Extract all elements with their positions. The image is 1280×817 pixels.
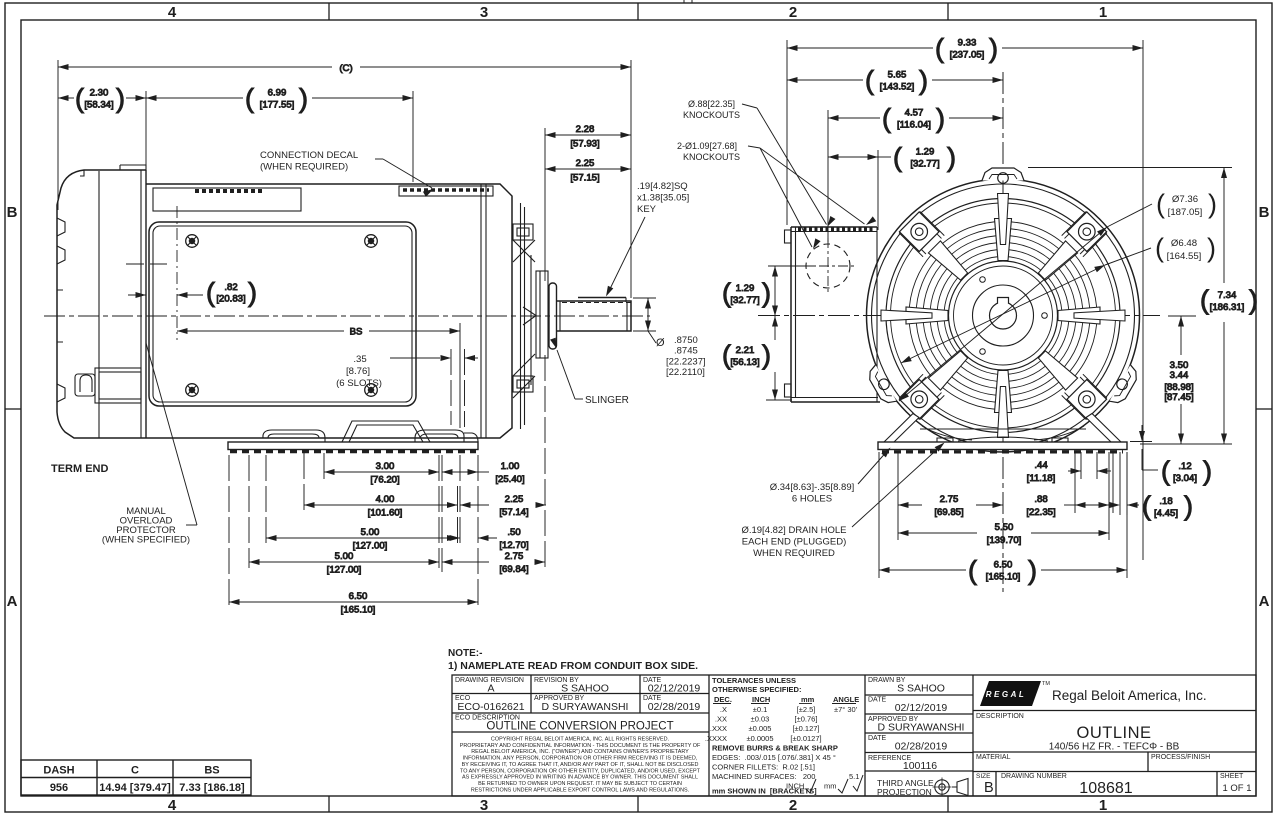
svg-text:Regal Beloit America, Inc.: Regal Beloit America, Inc. bbox=[1052, 688, 1207, 703]
svg-text:TM: TM bbox=[1042, 681, 1050, 687]
dim 5.00 [127.00] bbox=[249, 551, 439, 576]
svg-text:4: 4 bbox=[168, 797, 177, 814]
svg-text:[56.13]: [56.13] bbox=[730, 357, 759, 368]
svg-text:2: 2 bbox=[789, 4, 797, 21]
svg-text:): ) bbox=[919, 66, 928, 96]
svg-text:REGAL BELOIT AMERICA, INC. ("O: REGAL BELOIT AMERICA, INC. ("OWNER") AND… bbox=[471, 749, 689, 755]
dim 3.00 [76.20] bbox=[324, 461, 439, 486]
svg-text:(: ( bbox=[968, 556, 977, 586]
svg-text:6.99: 6.99 bbox=[268, 88, 287, 99]
base plate bbox=[228, 442, 478, 452]
fan cover (term end) bbox=[57, 165, 146, 438]
radial wedge ribs bbox=[1058, 307, 1100, 324]
svg-text:REGAL: REGAL bbox=[986, 690, 1027, 699]
svg-text:6.50: 6.50 bbox=[994, 560, 1013, 571]
svg-text:.44: .44 bbox=[1034, 460, 1048, 471]
svg-text:[12.70]: [12.70] bbox=[499, 540, 528, 551]
svg-text:02/28/2019: 02/28/2019 bbox=[895, 741, 948, 753]
dim 1.00 [25.40] bbox=[442, 461, 525, 485]
dim 2.21 [56.13] left bbox=[722, 316, 792, 400]
svg-text:(: ( bbox=[882, 104, 891, 134]
svg-text:2.75: 2.75 bbox=[940, 494, 959, 505]
svg-text:(: ( bbox=[1200, 285, 1209, 315]
svg-text:): ) bbox=[116, 84, 125, 114]
svg-text:[87.45]: [87.45] bbox=[1164, 392, 1193, 403]
hub circle bbox=[973, 285, 1034, 346]
svg-text:140/56 HZ FR. - TEFCΦ - BB: 140/56 HZ FR. - TEFCΦ - BB bbox=[1049, 742, 1180, 753]
svg-text:ANGLE: ANGLE bbox=[833, 695, 859, 704]
svg-text:COPYRIGHT REGAL BELOIT AMERICA: COPYRIGHT REGAL BELOIT AMERICA, INC. ALL… bbox=[491, 737, 670, 743]
svg-text:TOLERANCES UNLESS: TOLERANCES UNLESS bbox=[712, 676, 796, 685]
svg-text:mm: mm bbox=[801, 695, 815, 704]
svg-text:): ) bbox=[762, 278, 771, 308]
svg-text:Ø7.36: Ø7.36 bbox=[1172, 194, 1198, 205]
svg-text:ECO-0162621: ECO-0162621 bbox=[457, 701, 524, 713]
svg-text:(: ( bbox=[1155, 233, 1164, 263]
surface finish check symbols bbox=[806, 775, 863, 793]
svg-text:): ) bbox=[1184, 491, 1193, 521]
frame clamp bolts bbox=[186, 235, 378, 397]
svg-text:.35: .35 bbox=[353, 354, 366, 365]
svg-text:[32.77]: [32.77] bbox=[730, 295, 759, 306]
svg-text:TERM END: TERM END bbox=[51, 463, 109, 475]
svg-text:): ) bbox=[1207, 233, 1216, 263]
louvre rings bbox=[909, 222, 1097, 410]
center pedestal bbox=[342, 421, 430, 442]
slinger bbox=[549, 283, 557, 349]
zone divider ticks bbox=[328, 3, 330, 20]
svg-text:[57.15]: [57.15] bbox=[570, 173, 599, 184]
svg-text:.XXXX: .XXXX bbox=[705, 734, 727, 743]
svg-text:Ø.34[8.63]-.35[8.89]: Ø.34[8.63]-.35[8.89] bbox=[770, 482, 855, 493]
svg-text:): ) bbox=[762, 340, 771, 370]
svg-text:RESTRICTIONS UNDER APPLICABLE: RESTRICTIONS UNDER APPLICABLE EXPORT CON… bbox=[471, 787, 690, 793]
svg-text:[±0.127]: [±0.127] bbox=[792, 724, 819, 733]
svg-text:A: A bbox=[7, 593, 18, 610]
rear foot bbox=[415, 430, 478, 442]
svg-text:108681: 108681 bbox=[1079, 780, 1132, 797]
dim .50 [12.70] bbox=[448, 527, 529, 551]
svg-text:OTHERWISE SPECIFIED:: OTHERWISE SPECIFIED: bbox=[712, 685, 801, 694]
svg-text:3: 3 bbox=[480, 797, 488, 814]
guard mounting lugs (45 deg) bbox=[1062, 374, 1108, 420]
svg-text:INCH: INCH bbox=[752, 695, 770, 704]
svg-text:A: A bbox=[1259, 593, 1270, 610]
bearing hub bbox=[536, 271, 548, 358]
dim .88 [22.35] bbox=[1026, 494, 1109, 518]
svg-text:Ø.19[4.82] DRAIN HOLE: Ø.19[4.82] DRAIN HOLE bbox=[741, 525, 846, 536]
small guard screw holes bbox=[980, 277, 1048, 355]
svg-text:): ) bbox=[248, 278, 257, 308]
svg-text:OUTLINE: OUTLINE bbox=[1076, 724, 1151, 742]
shaft key flat bbox=[578, 297, 626, 299]
svg-text:2.25: 2.25 bbox=[576, 158, 595, 169]
svg-text:MACHINED SURFACES: 200: MACHINED SURFACES: 200 bbox=[712, 772, 815, 781]
svg-text:Ø: Ø bbox=[656, 337, 665, 349]
svg-text:S SAHOO: S SAHOO bbox=[561, 683, 609, 695]
svg-text:DEC.: DEC. bbox=[714, 695, 732, 704]
svg-text:.82: .82 bbox=[224, 282, 237, 293]
dim .44 [11.18] bbox=[1027, 460, 1111, 484]
cardinal spoke ribs bbox=[1074, 310, 1125, 321]
svg-text:[187.05]: [187.05] bbox=[1168, 207, 1203, 218]
dim 2.25 [57.14] bbox=[460, 494, 546, 518]
svg-text:956: 956 bbox=[50, 782, 68, 794]
svg-text:SIZE: SIZE bbox=[976, 773, 991, 780]
svg-text:.8745: .8745 bbox=[674, 346, 698, 357]
svg-text:(6 SLOTS): (6 SLOTS) bbox=[336, 378, 382, 389]
dim 7.34 [186.31] bbox=[1028, 168, 1258, 445]
svg-text:1.29: 1.29 bbox=[736, 283, 755, 294]
extension lines top bbox=[787, 40, 1143, 560]
svg-text:2.28: 2.28 bbox=[576, 124, 595, 135]
svg-text:KNOCKOUTS: KNOCKOUTS bbox=[683, 110, 740, 120]
svg-text:): ) bbox=[1208, 189, 1217, 219]
svg-text:(: ( bbox=[1156, 189, 1165, 219]
svg-text:KEY: KEY bbox=[637, 204, 657, 215]
svg-text:): ) bbox=[947, 143, 956, 173]
svg-text:9.33: 9.33 bbox=[958, 38, 977, 49]
svg-text:): ) bbox=[989, 34, 998, 64]
svg-text:(WHEN REQUIRED): (WHEN REQUIRED) bbox=[260, 162, 348, 173]
svg-text:±0.1: ±0.1 bbox=[753, 705, 768, 714]
third angle projection symbol bbox=[933, 778, 969, 797]
svg-text:.XX: .XX bbox=[715, 715, 727, 724]
dim 2.28 [57.93] bbox=[545, 124, 631, 150]
svg-text:B: B bbox=[984, 780, 994, 796]
dim 5.00 [127.00] bbox=[266, 527, 458, 552]
svg-text:CORNER FILLETS: R.02 [.51]: CORNER FILLETS: R.02 [.51] bbox=[712, 763, 815, 772]
title block revision table text bbox=[455, 677, 700, 733]
svg-text:1.29: 1.29 bbox=[916, 147, 935, 158]
svg-text:C: C bbox=[131, 765, 139, 777]
svg-text:4.57: 4.57 bbox=[905, 108, 924, 119]
dim 5.50 [139.70] bbox=[898, 522, 1109, 546]
dim 3.50/3.44 shaft height bbox=[1164, 316, 1196, 444]
svg-text:6.50: 6.50 bbox=[349, 591, 368, 602]
svg-text:(: ( bbox=[206, 278, 215, 308]
svg-text:B: B bbox=[1259, 204, 1270, 221]
conduit box bbox=[785, 227, 881, 402]
svg-text:BS: BS bbox=[350, 327, 363, 338]
motor body outline bbox=[146, 184, 512, 438]
svg-text:B: B bbox=[7, 204, 18, 221]
svg-text:[57.93]: [57.93] bbox=[570, 139, 599, 150]
svg-text:EDGES: .003/.015 [.076/.381]: EDGES: .003/.015 [.076/.381] X 45 ° bbox=[712, 753, 836, 762]
svg-text:[69.84]: [69.84] bbox=[499, 564, 528, 575]
svg-text:INFORMATION. ANY PERSON, CORPO: INFORMATION. ANY PERSON, CORPORATION OR … bbox=[463, 756, 698, 762]
svg-text:DATE: DATE bbox=[868, 697, 886, 704]
svg-text:NOTE:-: NOTE:- bbox=[448, 648, 482, 659]
top border crop marks bbox=[683, 0, 685, 3]
svg-text:PROPRIETARY AND CONFIDENTIAL I: PROPRIETARY AND CONFIDENTIAL INFORMATION… bbox=[460, 743, 701, 749]
svg-text:[±0.0127]: [±0.0127] bbox=[790, 734, 821, 743]
svg-text:DRAWING NUMBER: DRAWING NUMBER bbox=[1001, 773, 1067, 780]
hidden datum line (bolt center) bbox=[176, 206, 178, 340]
svg-text:(C): (C) bbox=[339, 63, 352, 74]
svg-text:(: ( bbox=[1161, 456, 1170, 486]
svg-text:7.34: 7.34 bbox=[1218, 290, 1237, 301]
svg-text:[11.18]: [11.18] bbox=[1027, 473, 1056, 484]
svg-text:EACH END (PLUGGED): EACH END (PLUGGED) bbox=[742, 537, 847, 548]
svg-text:3: 3 bbox=[480, 4, 488, 21]
svg-text:DATE: DATE bbox=[868, 735, 886, 742]
svg-text:(: ( bbox=[893, 143, 902, 173]
svg-text:.88: .88 bbox=[1034, 494, 1047, 505]
svg-text:4: 4 bbox=[168, 4, 177, 21]
svg-text:REMOVE BURRS & BREAK SHARP: REMOVE BURRS & BREAK SHARP bbox=[712, 744, 838, 753]
svg-text:1.00: 1.00 bbox=[501, 461, 520, 472]
svg-text:BS: BS bbox=[204, 765, 219, 777]
shaft centerline bbox=[44, 315, 650, 317]
svg-text:[143.52]: [143.52] bbox=[880, 82, 915, 93]
stator frame inner rounded rect bbox=[149, 222, 416, 406]
svg-text:2.30: 2.30 bbox=[90, 88, 109, 99]
svg-text:[58.34]: [58.34] bbox=[84, 100, 113, 111]
svg-text:±0.005: ±0.005 bbox=[749, 724, 772, 733]
svg-text:PROCESS/FINISH: PROCESS/FINISH bbox=[1151, 754, 1210, 761]
shaft diameter dim bbox=[633, 298, 656, 343]
extension lines bbox=[57, 60, 59, 210]
svg-text:4.00: 4.00 bbox=[376, 494, 395, 505]
dim 6.50 [165.10] end view bbox=[879, 556, 1127, 586]
dim 4.00 [101.60] bbox=[304, 494, 458, 519]
svg-text:[22.2110]: [22.2110] bbox=[666, 367, 705, 378]
rim clamp bosses bbox=[982, 168, 1024, 183]
svg-text:): ) bbox=[1203, 456, 1212, 486]
front foot bbox=[263, 430, 325, 442]
svg-text:5.00: 5.00 bbox=[361, 527, 380, 538]
svg-text:[237.05]: [237.05] bbox=[950, 50, 985, 61]
svg-text:A: A bbox=[487, 683, 494, 695]
svg-text:(: ( bbox=[865, 66, 874, 96]
dim 2.30 [58.34] bbox=[58, 84, 146, 114]
svg-text:[165.10]: [165.10] bbox=[986, 572, 1021, 583]
svg-text:3.00: 3.00 bbox=[376, 461, 395, 472]
svg-text:x1.38[35.05]: x1.38[35.05] bbox=[637, 193, 689, 204]
svg-text:3.44: 3.44 bbox=[1170, 370, 1189, 381]
svg-text:[76.20]: [76.20] bbox=[370, 475, 399, 486]
svg-text:WHEN REQUIRED: WHEN REQUIRED bbox=[753, 548, 835, 559]
svg-text:1) NAMEPLATE READ FROM CONDUIT: 1) NAMEPLATE READ FROM CONDUIT BOX SIDE. bbox=[448, 660, 698, 672]
svg-text:SLINGER: SLINGER bbox=[585, 395, 629, 406]
svg-text:DASH: DASH bbox=[43, 765, 74, 777]
dim .12 [3.04] bbox=[1130, 425, 1212, 486]
svg-text:.X: .X bbox=[720, 705, 727, 714]
dim BS bbox=[177, 327, 460, 338]
svg-text:5.1: 5.1 bbox=[849, 772, 859, 781]
svg-text:2.75: 2.75 bbox=[505, 551, 524, 562]
svg-text:2: 2 bbox=[789, 797, 797, 814]
svg-text:1: 1 bbox=[1099, 797, 1107, 814]
svg-text:[116.04]: [116.04] bbox=[897, 120, 931, 131]
svg-text:±0.0005: ±0.0005 bbox=[746, 734, 773, 743]
svg-text:[22.2237]: [22.2237] bbox=[666, 357, 706, 368]
svg-text:mm SHOWN IN [BRACKETS]: mm SHOWN IN [BRACKETS] bbox=[712, 787, 817, 796]
svg-text:): ) bbox=[1028, 556, 1037, 586]
svg-text:02/28/2019: 02/28/2019 bbox=[648, 701, 701, 713]
svg-text:5.00: 5.00 bbox=[335, 551, 354, 562]
svg-text:5.65: 5.65 bbox=[888, 70, 907, 81]
svg-text:7.33 [186.18]: 7.33 [186.18] bbox=[179, 782, 245, 794]
dim 2.75 [69.84] bbox=[442, 551, 545, 575]
svg-text:02/12/2019: 02/12/2019 bbox=[648, 683, 701, 695]
svg-text:(: ( bbox=[935, 34, 944, 64]
svg-text:PROJECTION: PROJECTION bbox=[877, 787, 932, 797]
svg-text:2-Ø1.09[27.68]: 2-Ø1.09[27.68] bbox=[677, 141, 737, 151]
svg-text:KNOCKOUTS: KNOCKOUTS bbox=[683, 152, 740, 162]
svg-text:6 HOLES: 6 HOLES bbox=[792, 494, 832, 505]
dim 6.50 [165.10] bbox=[229, 591, 478, 616]
svg-text:±0.03: ±0.03 bbox=[751, 715, 770, 724]
svg-text:[101.60]: [101.60] bbox=[368, 508, 403, 519]
connection decal on body top bbox=[399, 186, 493, 196]
svg-text:TO ANY PERSON, CORPORATION OR: TO ANY PERSON, CORPORATION OR OTHER ENTI… bbox=[460, 768, 701, 774]
end view base feet bbox=[884, 414, 1121, 443]
svg-text:[±0.76]: [±0.76] bbox=[795, 715, 818, 724]
svg-text:[69.85]: [69.85] bbox=[934, 507, 963, 518]
svg-text:OUTLINE CONVERSION PROJECT: OUTLINE CONVERSION PROJECT bbox=[486, 721, 673, 733]
svg-text:): ) bbox=[936, 104, 945, 134]
svg-text:DESCRIPTION: DESCRIPTION bbox=[976, 713, 1024, 720]
svg-text:[3.04]: [3.04] bbox=[1173, 473, 1197, 484]
svg-text:[186.31]: [186.31] bbox=[1210, 302, 1245, 313]
svg-text:D SURYAWANSHI: D SURYAWANSHI bbox=[878, 722, 965, 734]
svg-text:[8.76]: [8.76] bbox=[346, 366, 370, 377]
manual overload protector boss bbox=[75, 368, 141, 403]
svg-text:BY RECEIVING IT, TO AGREE THAT: BY RECEIVING IT, TO AGREE THAT IT, AND/O… bbox=[462, 762, 699, 768]
svg-text:D SURYAWANSHI: D SURYAWANSHI bbox=[542, 701, 629, 713]
svg-text:): ) bbox=[299, 84, 308, 114]
svg-text:5.50: 5.50 bbox=[995, 522, 1014, 533]
dim .82 [20.83] bbox=[128, 278, 257, 308]
shaft bore with keyway bbox=[990, 302, 1017, 329]
svg-text:S SAHOO: S SAHOO bbox=[897, 683, 945, 695]
svg-text:.19[4.82]SQ: .19[4.82]SQ bbox=[637, 181, 688, 192]
svg-text:mm: mm bbox=[824, 782, 837, 791]
svg-text:[25.40]: [25.40] bbox=[495, 474, 524, 485]
svg-text:[20.83]: [20.83] bbox=[216, 294, 245, 305]
svg-text:): ) bbox=[1249, 285, 1258, 315]
dim 5.65 [143.52] bbox=[787, 66, 1003, 96]
dim (C) overall bbox=[58, 63, 631, 74]
dim 6.99 [177.55] bbox=[146, 84, 413, 114]
svg-text:1 OF 1: 1 OF 1 bbox=[1222, 783, 1251, 794]
bottom extension lines bbox=[879, 452, 1127, 578]
svg-text:02/12/2019: 02/12/2019 bbox=[895, 702, 948, 714]
svg-text:[4.45]: [4.45] bbox=[1154, 508, 1178, 519]
dim 1.29 [32.77] top bbox=[828, 143, 956, 173]
svg-text:[165.10]: [165.10] bbox=[341, 605, 376, 616]
svg-text:[127.00]: [127.00] bbox=[353, 541, 388, 552]
dim 1.29 [32.77] left bbox=[722, 266, 816, 316]
title block grid bbox=[452, 675, 1256, 796]
svg-text:BE RETURNED TO OWNER UPON REQU: BE RETURNED TO OWNER UPON REQUEST. IT MA… bbox=[478, 781, 682, 787]
svg-text:.18: .18 bbox=[1159, 496, 1172, 507]
svg-text:(: ( bbox=[1142, 491, 1151, 521]
svg-text:[±2.5]: [±2.5] bbox=[797, 705, 816, 714]
nameplate strip on body top bbox=[153, 188, 301, 211]
svg-text:CONNECTION DECAL: CONNECTION DECAL bbox=[260, 150, 358, 161]
svg-text:AS EXPRESSLY APPROVED IN WRITI: AS EXPRESSLY APPROVED IN WRITING IN ADVA… bbox=[462, 775, 698, 781]
dash table bbox=[21, 760, 251, 795]
copyright fine print bbox=[460, 737, 701, 794]
svg-text:[139.70]: [139.70] bbox=[987, 535, 1022, 546]
svg-text:±7° 30': ±7° 30' bbox=[834, 705, 858, 714]
svg-text:.50: .50 bbox=[507, 527, 520, 538]
svg-text:[32.77]: [32.77] bbox=[910, 159, 939, 170]
svg-text:(: ( bbox=[245, 84, 254, 114]
tolerances block text bbox=[705, 676, 863, 796]
dim 4.57 [116.04] bbox=[828, 104, 1003, 134]
svg-text:[127.00]: [127.00] bbox=[327, 565, 362, 576]
svg-text:[57.14]: [57.14] bbox=[499, 507, 528, 518]
dim 2.25 [57.15] bbox=[545, 158, 631, 184]
pulley end bracket bbox=[513, 203, 536, 429]
drawn/approved column bbox=[868, 677, 968, 797]
svg-text:.XXX: .XXX bbox=[710, 724, 727, 733]
svg-text:.12: .12 bbox=[1178, 461, 1191, 472]
knockout (dashed circle) bbox=[800, 238, 856, 294]
svg-text:[22.35]: [22.35] bbox=[1026, 507, 1055, 518]
end view base plate bbox=[878, 442, 1127, 452]
svg-text:.8750: .8750 bbox=[674, 335, 698, 346]
svg-text:14.94 [379.47]: 14.94 [379.47] bbox=[99, 782, 171, 794]
svg-text:[164.55]: [164.55] bbox=[1167, 251, 1202, 262]
svg-text:100116: 100116 bbox=[903, 760, 937, 772]
svg-text:SHEET: SHEET bbox=[1220, 773, 1244, 780]
svg-text:Ø6.48: Ø6.48 bbox=[1171, 238, 1197, 249]
end view centerlines bbox=[758, 315, 1160, 317]
guard ring bbox=[886, 199, 1120, 433]
small hidden tick bbox=[126, 263, 167, 265]
Regal logo bbox=[980, 681, 1207, 706]
shaft bbox=[557, 298, 632, 332]
fan shroud outer rim bbox=[867, 179, 1140, 452]
svg-text:Ø.88[22.35]: Ø.88[22.35] bbox=[688, 99, 735, 109]
diameter callout lines bbox=[897, 204, 1152, 403]
dim .18 [4.45] bbox=[1110, 452, 1194, 521]
svg-text:2.25: 2.25 bbox=[505, 494, 524, 505]
svg-text:[177.55]: [177.55] bbox=[260, 100, 295, 111]
description cell bbox=[976, 713, 1252, 797]
svg-text:(WHEN SPECIFIED): (WHEN SPECIFIED) bbox=[102, 535, 190, 546]
svg-text:1: 1 bbox=[1099, 4, 1107, 21]
svg-text:2.21: 2.21 bbox=[736, 345, 755, 356]
dim 9.33 [237.05] bbox=[787, 34, 1143, 64]
dim 2.75 [69.85] bbox=[898, 494, 1003, 518]
svg-text:MATERIAL: MATERIAL bbox=[976, 754, 1011, 761]
svg-text:(: ( bbox=[75, 84, 84, 114]
inner guard disc bbox=[949, 261, 1058, 370]
